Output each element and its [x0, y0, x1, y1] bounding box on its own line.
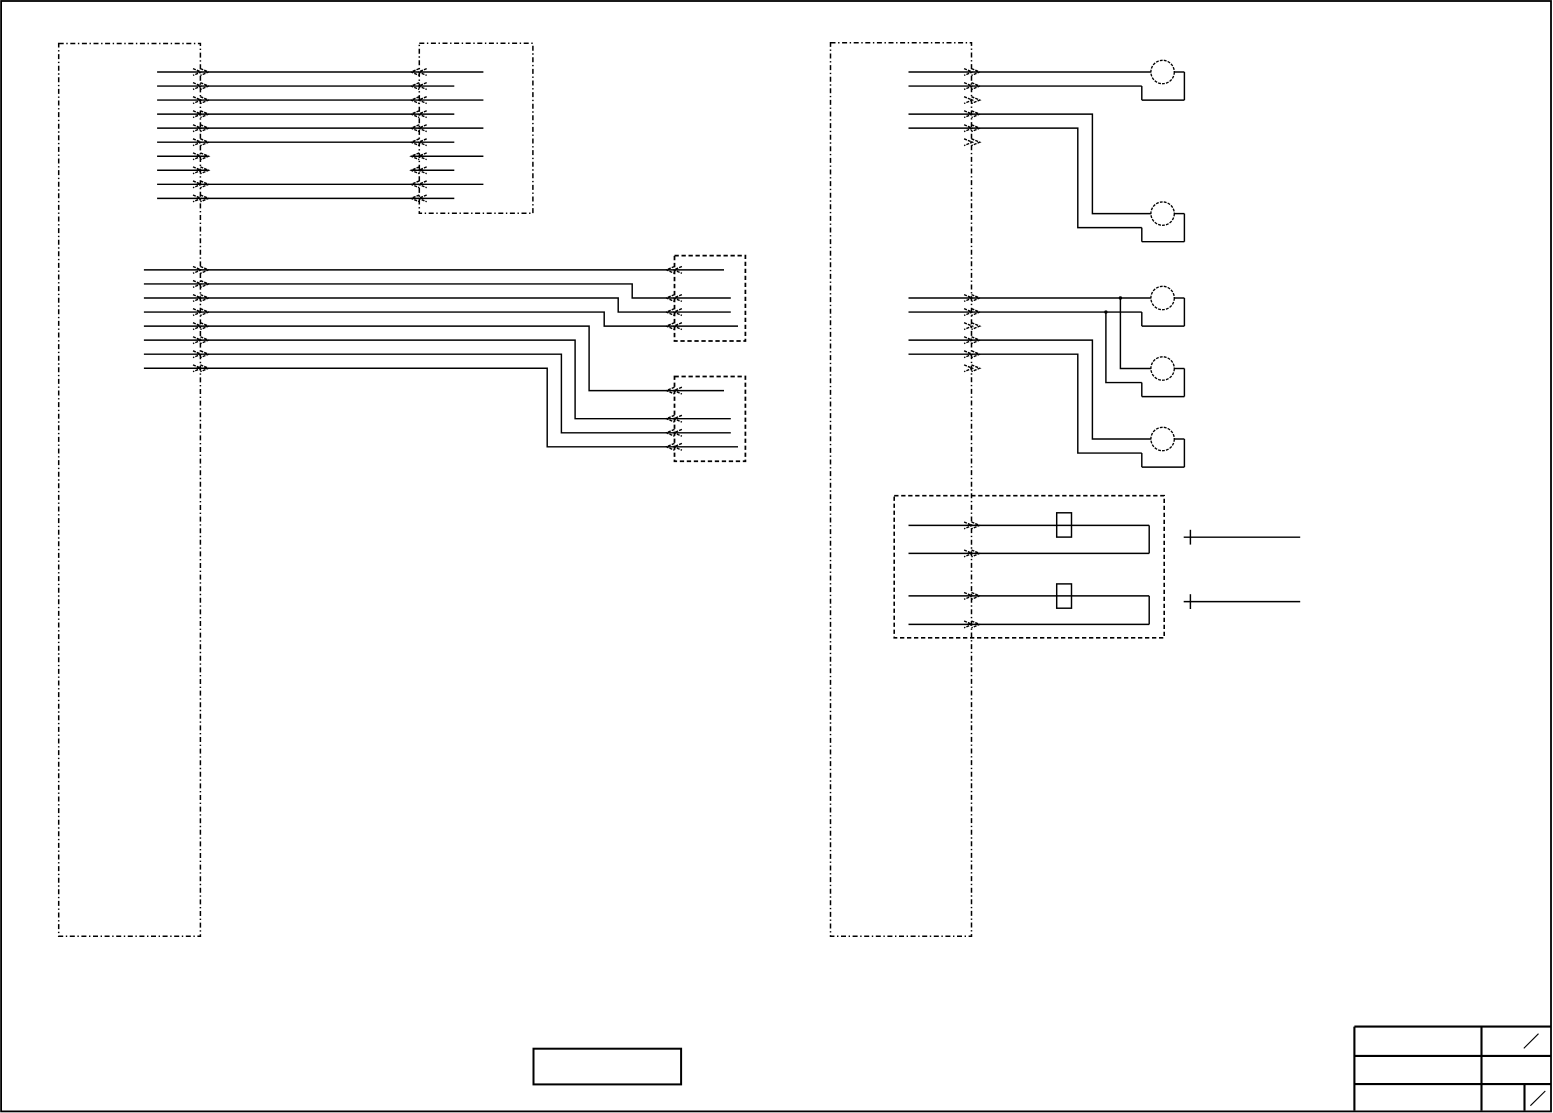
- wire W28 (J3 pin 11 return of lamp E5): [909, 351, 1142, 453]
- junction node B on wire W25: [1104, 310, 1107, 313]
- wire W16 (J1 to K2, steps down at x=575.1): [144, 337, 731, 422]
- wire W2 (J1 pin 2 to J2 pin 2): [157, 83, 454, 90]
- wire W6 (J1 pin 6 to J2 pin 6): [157, 139, 454, 146]
- wire W8 left stub (J1 pin 8): [157, 167, 209, 174]
- fuse F1: [1057, 513, 1072, 537]
- connector J3 (right harness connector, dash-dot outline): [831, 43, 972, 937]
- wire W13 (J1 to K1, steps down at x=618.2): [144, 295, 731, 316]
- pin arrow J3 pin 3 (unconnected): [964, 97, 980, 104]
- wire W11 (J1 to K1 pin 1): [144, 267, 724, 274]
- lamp E1 (dashed circle) with return loop: [1142, 60, 1185, 100]
- connector J2 (top right module connector, dash-dot outline): [419, 43, 533, 213]
- wire W30 (J3, joins W29 at right end): [909, 550, 1150, 557]
- wire W27 (J3 pin 10 feed to lamp E5): [909, 337, 1151, 439]
- wire W15 (J1 to K2, steps down at x=589.1): [144, 323, 724, 394]
- wire W26 (node B branch return of lamp E4): [1106, 312, 1142, 383]
- stamp box (bottom centre): [534, 1049, 682, 1085]
- wire W5 (J1 pin 5 to J2 pin 5): [157, 125, 483, 132]
- terminal T2 (stud with lead): [1184, 594, 1301, 609]
- lamp E4 (dashed circle) with return loop: [1142, 357, 1185, 397]
- wire W19 (J3 pin 1 feed to lamp E1): [909, 69, 1151, 76]
- wire W20 (J3 pin 2 return of lamp E1): [909, 83, 1142, 90]
- wire W3 (J1 pin 3 to J2 pin 3): [157, 97, 483, 104]
- wire W29 (J3 to fuse F1): [909, 522, 1150, 529]
- wire W18 (J1 to K2, steps down at x=547.2): [144, 365, 738, 450]
- junction node A on wire W23: [1119, 296, 1122, 299]
- fuse box FB (dashed outline): [894, 496, 1164, 638]
- connector J1 (left harness connector, dash-dot outline): [59, 44, 201, 937]
- lamp E5 (dashed circle) with return loop: [1142, 427, 1185, 467]
- wire W4 (J1 pin 4 to J2 pin 4): [157, 111, 454, 118]
- wire W32 (J3, joins W31 at right end): [909, 621, 1150, 628]
- wire W22 (J3 pin 5 return of lamp E2): [909, 125, 1142, 228]
- lamp E3 (dashed circle) with return loop: [1142, 286, 1185, 326]
- wire W10 (J1 pin 10 to J2 pin 10): [157, 195, 454, 202]
- title block: [1354, 1027, 1550, 1111]
- wire W17 (J1 to K2, steps down at x=561.4): [144, 351, 731, 436]
- connector K2 (lower plug, dashed outline): [675, 377, 746, 462]
- wire W25 (J3 pin 8 return of lamp E3): [909, 309, 1142, 316]
- terminal T1 (stud with lead): [1184, 530, 1301, 545]
- lamp E2 (dashed circle) with return loop: [1142, 202, 1185, 242]
- revision slash mark 1: [1524, 1034, 1539, 1049]
- wire W1 (J1 pin 1 to J2 pin 1): [157, 69, 483, 76]
- pin arrow J3 pin 9 (unconnected): [964, 323, 980, 330]
- wire W7 left stub (J1 pin 7): [157, 153, 209, 160]
- revision slash mark 2: [1530, 1091, 1545, 1106]
- wire W7 right stub (J2 pin 7): [411, 153, 483, 160]
- wire joint of W29/W30: [1148, 525, 1150, 553]
- wire W8 right stub (J2 pin 8): [411, 167, 454, 174]
- pin arrow J3 pin 6 (unconnected): [964, 139, 980, 146]
- wire W24 (node A branch feed to lamp E4): [1120, 298, 1151, 369]
- wire W9 (J1 pin 9 to J2 pin 9): [157, 181, 483, 188]
- wire W21 (J3 pin 4 feed to lamp E2): [909, 111, 1151, 214]
- wire W14 (J1 to K1, steps down at x=604.2): [144, 309, 738, 330]
- wire W31 (J3 to fuse F2): [909, 593, 1150, 600]
- connector K1 (upper plug, dashed outline): [675, 256, 746, 341]
- fuse F2: [1057, 584, 1072, 608]
- wire W12 (J1 to K1, steps down at x=632.2): [144, 281, 731, 302]
- wire W23 (J3 pin 7 feed to lamp E3): [909, 295, 1151, 302]
- pin arrow J3 pin 12 (unconnected): [964, 365, 980, 372]
- wire joint of W31/W32: [1148, 596, 1150, 625]
